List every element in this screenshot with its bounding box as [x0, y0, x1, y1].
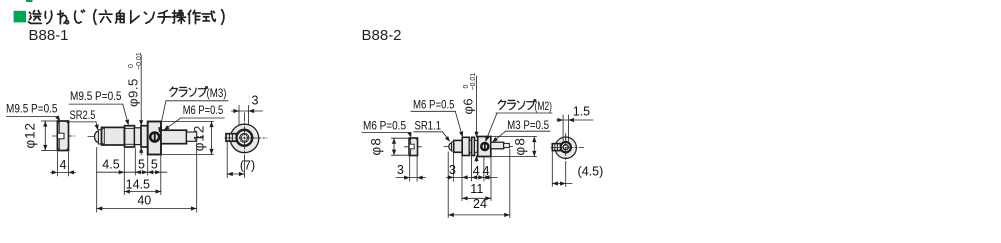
svg-text:40: 40 — [137, 193, 151, 207]
svg-text:1.5: 1.5 — [573, 105, 590, 119]
svg-text:φ6: φ6 — [461, 98, 476, 115]
svg-text:(7): (7) — [240, 158, 255, 172]
svg-text:(4.5): (4.5) — [578, 164, 604, 178]
svg-text:φ12: φ12 — [23, 122, 38, 148]
svg-text:M9.5 P=0.5: M9.5 P=0.5 — [6, 102, 58, 116]
svg-text:φ8: φ8 — [369, 137, 384, 156]
svg-text:14.5: 14.5 — [126, 177, 150, 191]
svg-text:4: 4 — [473, 164, 480, 178]
svg-text:φ12: φ12 — [192, 125, 207, 151]
svg-text:3: 3 — [397, 163, 404, 177]
svg-text:M9.5 P=0.5: M9.5 P=0.5 — [70, 89, 122, 103]
svg-text:24: 24 — [473, 197, 487, 211]
svg-text:5: 5 — [138, 158, 145, 172]
svg-text:SR2.5: SR2.5 — [70, 108, 96, 122]
svg-text:M6 P=0.5: M6 P=0.5 — [413, 98, 455, 112]
svg-text:−0.01: −0.01 — [470, 73, 477, 91]
svg-text:5: 5 — [151, 158, 158, 172]
svg-text:M6 P=0.5: M6 P=0.5 — [363, 118, 406, 132]
svg-text:0: 0 — [463, 85, 470, 89]
svg-text:φ9.5: φ9.5 — [126, 78, 141, 107]
svg-text:4: 4 — [483, 164, 490, 178]
svg-text:3: 3 — [449, 163, 456, 177]
svg-text:4.5: 4.5 — [102, 158, 119, 172]
svg-text:SR1.1: SR1.1 — [415, 118, 442, 132]
svg-text:M3 P=0.5: M3 P=0.5 — [507, 118, 549, 132]
svg-text:M6 P=0.5: M6 P=0.5 — [183, 103, 224, 117]
svg-text:3: 3 — [252, 94, 259, 108]
svg-text:4: 4 — [60, 158, 67, 172]
svg-text:(M2): (M2) — [535, 99, 553, 113]
svg-text:11: 11 — [470, 182, 483, 196]
svg-text:−0.01: −0.01 — [136, 52, 143, 70]
svg-text:B88-2: B88-2 — [362, 27, 402, 44]
svg-text:B88-1: B88-1 — [29, 27, 69, 44]
svg-text:(M3): (M3) — [207, 86, 227, 100]
svg-text:φ8: φ8 — [513, 137, 528, 156]
svg-text:0: 0 — [128, 64, 135, 68]
